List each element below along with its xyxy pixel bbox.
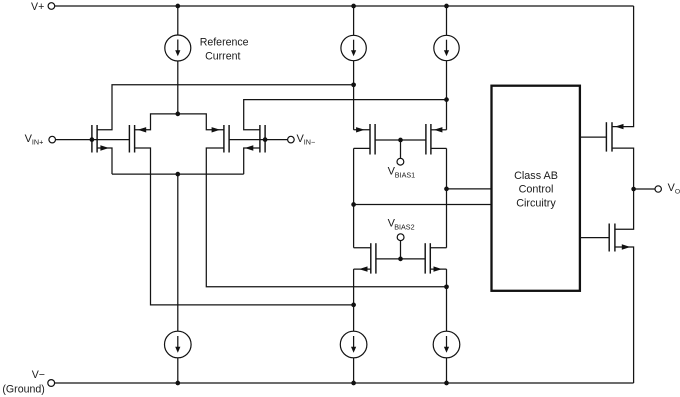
svg-text:V−: V− bbox=[32, 369, 45, 381]
svg-text:Control: Control bbox=[519, 184, 554, 196]
svg-text:BIAS1: BIAS1 bbox=[395, 171, 415, 180]
svg-text:Reference: Reference bbox=[200, 37, 249, 49]
svg-text:(Ground): (Ground) bbox=[2, 384, 44, 396]
svg-text:V+: V+ bbox=[31, 1, 44, 13]
svg-text:O: O bbox=[675, 189, 680, 196]
svg-text:BIAS2: BIAS2 bbox=[394, 223, 414, 232]
svg-text:Current: Current bbox=[205, 51, 240, 63]
svg-text:Class AB: Class AB bbox=[514, 170, 558, 182]
svg-text:IN+: IN+ bbox=[32, 138, 43, 147]
svg-text:IN−: IN− bbox=[304, 138, 315, 147]
svg-text:Circuitry: Circuitry bbox=[516, 197, 556, 209]
